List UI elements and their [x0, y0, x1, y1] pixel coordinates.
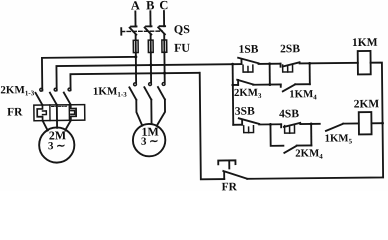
node B phase label — [146, 0, 154, 12]
svg-text:2KM4: 2KM4 — [295, 147, 323, 160]
node A phase label — [131, 0, 140, 13]
fuse FU phase B — [148, 40, 153, 52]
label 4SB — [279, 108, 299, 120]
label 1SB — [238, 44, 258, 56]
wire phase A drop from label to QS — [134, 11, 136, 26]
wire FR box to motor 2M right — [65, 120, 71, 130]
label 2SB — [280, 43, 300, 55]
wire phase C below fuse — [163, 52, 165, 82]
label 3SB — [235, 106, 255, 118]
contactor main contact 1KM pole1 — [129, 83, 136, 100]
wire phase A below fuse down to 1KM contact — [135, 53, 137, 83]
thermal relay FR heater element left nub — [43, 111, 47, 115]
wire FR box to motor 2M left — [43, 121, 48, 131]
wire parallel branch line 2 left — [270, 124, 283, 146]
wire mid vertical between 1SB and 2SB — [269, 64, 271, 85]
wire coil 2KM to right rail — [371, 122, 382, 124]
switch QS pole 2 — [145, 26, 152, 40]
crossing blob A-L2 — [135, 64, 137, 66]
label FR left — [7, 106, 23, 118]
junction dot rail-parallel1 — [231, 84, 234, 87]
wire 1KM pole3 to motor 1M — [156, 99, 165, 125]
pushbutton 4SB make contact — [281, 123, 320, 134]
label QS — [174, 22, 190, 36]
junction dot B-L2 — [149, 64, 152, 67]
thermal relay FR heater element right nub — [71, 111, 75, 115]
label 2KM1-3 — [0, 84, 34, 98]
wire 1KM pole1 to motor 1M — [136, 100, 142, 126]
wire 1KM pole2 to motor 1M — [150, 100, 152, 124]
junction dot C-L3 — [163, 72, 166, 75]
svg-text:1KM: 1KM — [352, 37, 378, 49]
junction dot control rail top — [231, 63, 234, 66]
label 1KM1-3 — [93, 85, 127, 99]
wire phase C drop from label to QS — [163, 11, 165, 26]
pushbutton 2SB make contact — [281, 62, 358, 72]
label 1KM5 — [325, 132, 353, 145]
wire FR box to motor 2M middle — [56, 120, 58, 127]
thermal relay FR heater box inner divider right — [68, 105, 70, 121]
auxiliary contact 1KM4 self hold — [270, 84, 310, 91]
coil 2KM — [359, 112, 372, 134]
fuse FU phase C — [162, 40, 167, 52]
svg-text:FR: FR — [7, 106, 23, 118]
switch QS pole 3 — [158, 26, 165, 40]
label FR bottom — [222, 181, 238, 193]
wire middle phase through FR box — [56, 105, 58, 121]
thermal relay FR linkage dash-dot — [52, 105, 67, 107]
wire parallel branch line 1 left segment — [233, 84, 238, 86]
switch QS pole 1 — [130, 26, 137, 40]
thermal relay FR heater box — [34, 105, 85, 121]
wire phase B drop from label to QS — [149, 11, 151, 26]
wire bus L3 horizontal — [70, 73, 199, 90]
wire bus L1 horizontal — [42, 57, 136, 91]
thermal relay FR heater element right — [71, 105, 76, 121]
svg-text:3 ∼: 3 ∼ — [48, 140, 66, 152]
auxiliary contact 1KM5 interlock — [326, 123, 359, 130]
label 2KM3 — [234, 87, 262, 100]
svg-text:2KM: 2KM — [354, 98, 380, 110]
svg-text:2SB: 2SB — [280, 43, 300, 55]
svg-text:1KM4: 1KM4 — [289, 88, 317, 101]
contactor main contact 1KM pole2 — [144, 83, 151, 100]
svg-text:1KM5: 1KM5 — [325, 132, 353, 145]
contactor main contact 1KM pole3 — [158, 83, 165, 100]
wire coil 1KM to right rail — [371, 63, 383, 124]
auxiliary contact 2KM3 — [237, 79, 270, 85]
label 1KM4 — [289, 88, 317, 101]
auxiliary contact 2KM4 self hold — [284, 124, 311, 153]
label FU — [174, 41, 190, 55]
wire right vertical after 2SB — [309, 63, 311, 84]
svg-text:2KM3: 2KM3 — [234, 87, 262, 100]
wire bottom return to right rail — [247, 123, 384, 179]
contactor main contact 2KM pole2 — [50, 88, 57, 105]
thermal relay FR heater box inner divider left — [49, 105, 51, 121]
motor 2M circle — [39, 127, 75, 163]
pushbutton 1SB break contact — [233, 57, 281, 72]
node C phase label — [159, 0, 168, 12]
svg-text:FR: FR — [222, 181, 238, 191]
contactor main contact 2KM pole1 — [35, 88, 42, 105]
svg-text:3 ∼: 3 ∼ — [141, 136, 159, 148]
fuse FU phase A — [133, 40, 138, 52]
svg-text:FU: FU — [174, 41, 190, 55]
svg-text:QS: QS — [174, 22, 190, 36]
wire control feed rail from L3 down to FR break contact — [200, 73, 225, 180]
contactor main contact 2KM pole3 — [64, 88, 71, 105]
coil 1KM — [358, 51, 371, 75]
junction dot A-L1 — [134, 55, 137, 58]
crossing blob B-L3 — [150, 72, 152, 74]
pushbutton 3SB break contact — [233, 118, 281, 133]
svg-text:3SB: 3SB — [235, 106, 255, 118]
thermal relay FR break contact — [218, 160, 247, 179]
wire phase B below fuse — [150, 52, 152, 82]
switch QS linkage dashed bar with handle tick — [121, 28, 162, 35]
crossing blob A-L3 — [135, 72, 137, 74]
thermal relay FR heater element left — [37, 105, 42, 121]
wire control left rail — [232, 64, 235, 125]
svg-text:4SB: 4SB — [279, 108, 299, 120]
wire bus L2 horizontal — [56, 64, 232, 90]
svg-text:1SB: 1SB — [238, 44, 258, 56]
motor 1M circle — [133, 124, 166, 157]
label 2KM4 — [295, 147, 323, 160]
